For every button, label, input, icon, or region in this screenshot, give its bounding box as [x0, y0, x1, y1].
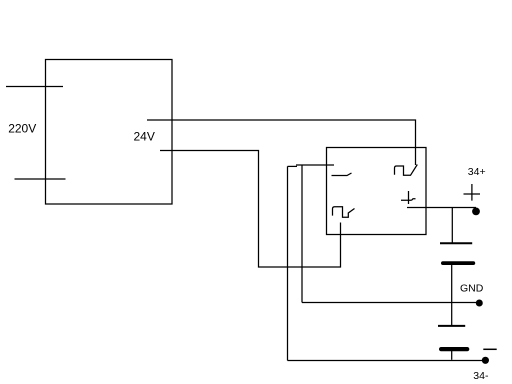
terminal cross 34+ [464, 184, 481, 201]
node dot 34+ [472, 208, 480, 216]
node dot GND [476, 300, 483, 307]
wire lead to capacitor C1 [451, 208, 453, 243]
transformer U1 box 220V/24V [46, 60, 173, 205]
svg-text:220V: 220V [8, 122, 36, 136]
wire 34- rail [288, 360, 486, 362]
rectifier module U2 box [327, 148, 427, 235]
svg-text:34+: 34+ [468, 166, 486, 178]
node dot 34- [482, 357, 489, 364]
wire lead C1 to C2 [451, 265, 453, 326]
svg-text:34-: 34- [473, 370, 489, 382]
capacitor C1 negative plate [440, 242, 472, 244]
wire lead C2 to 34- rail [451, 351, 453, 360]
wire 220V input line 2 [15, 178, 66, 180]
wire vertical to GND rail [301, 165, 303, 303]
switch contact S1 top-left in U2 [332, 173, 352, 176]
wire U2 output to 34+ node [407, 207, 476, 209]
plus polarity mark inside U2 [401, 191, 416, 204]
capacitor C1 positive plate [441, 261, 475, 265]
wire vertical to 34- rail [287, 166, 289, 360]
wire 24V output upper [147, 120, 416, 165]
capacitor C2 negative plate [438, 325, 465, 327]
wire GND rail [302, 302, 479, 304]
wire 220V input line 1 [6, 86, 63, 88]
minus polarity mark near 34- [483, 348, 496, 350]
svg-text:GND: GND [460, 283, 484, 295]
wire into U2 left pin [296, 164, 334, 166]
SCR D2 bottom-left in U2 [333, 207, 355, 218]
SCR D1 top-right in U2 [395, 165, 418, 176]
wire 24V output lower [160, 151, 341, 268]
capacitor C2 positive plate [439, 347, 469, 351]
wire stub into U2 left input [288, 165, 298, 167]
svg-text:24V: 24V [134, 130, 155, 144]
